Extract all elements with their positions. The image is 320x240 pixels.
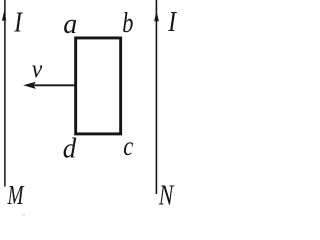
scan speck (22, 213, 25, 216)
wire M (4, 0, 6, 187)
svg-text:v: v (32, 56, 43, 83)
svg-text:I: I (167, 7, 177, 38)
svg-text:d: d (63, 133, 77, 165)
svg-text:I: I (13, 7, 23, 39)
current arrowhead on wire M (2, 11, 6, 21)
svg-text:M: M (7, 180, 25, 210)
velocity arrow v (23, 82, 76, 89)
svg-text:b: b (122, 8, 133, 39)
svg-text:N: N (158, 181, 174, 212)
current arrowhead on wire N (154, 11, 159, 21)
wire N (155, 0, 157, 194)
svg-text:c: c (123, 131, 133, 161)
svg-text:a: a (63, 9, 77, 40)
loop abcd (76, 38, 121, 134)
